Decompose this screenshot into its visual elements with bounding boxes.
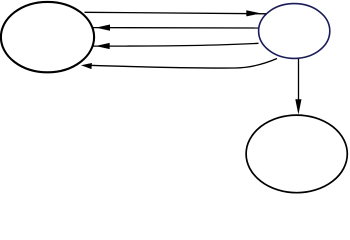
wire: vertical arrow from right node down to bottom node xyxy=(298,59,300,103)
wire: upper return arrow right-to-left xyxy=(93,27,258,29)
wire: lower return arrow right-to-left xyxy=(93,43,259,46)
node left (large black ellipse) xyxy=(1,2,94,72)
arrowhead of top arrow (points right) xyxy=(246,10,260,16)
wire: curved return arrow from right node bottom to left node xyxy=(90,59,277,69)
node bottom (black ellipse) xyxy=(246,115,347,193)
arrowhead of upper return arrow (points left) xyxy=(96,25,110,31)
node right (navy ellipse) xyxy=(259,4,330,59)
wire: top arrow left-to-right xyxy=(85,12,267,14)
arrowhead of curved return arrow (points left) xyxy=(81,63,92,69)
arrowhead of lower return arrow (points left) xyxy=(96,43,110,49)
arrowhead of vertical arrow (points down) xyxy=(295,99,301,114)
